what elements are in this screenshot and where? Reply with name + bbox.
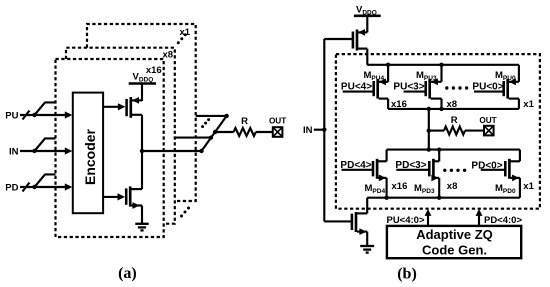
ellipsis dots between instance boxes top-right (a) <box>177 41 180 44</box>
output node dot (a) <box>140 149 144 153</box>
ellipsis dots on merge (a) <box>201 125 204 128</box>
pmos enable transistor (b) <box>356 30 359 51</box>
svg-text:PU<3>: PU<3> <box>393 81 424 92</box>
pmos M_PU3 <box>440 65 442 82</box>
svg-text:OUT: OUT <box>269 117 286 126</box>
svg-text:Encoder: Encoder <box>82 128 98 185</box>
ground (b) <box>360 245 374 247</box>
IN vertical wire (b) <box>323 39 325 221</box>
PU source rail wire <box>367 64 519 66</box>
svg-text:x16: x16 <box>146 65 162 76</box>
resistor R (a) <box>215 131 234 133</box>
pmos pull-up transistor (a) <box>103 106 119 108</box>
wire x1 instance output <box>196 115 227 117</box>
nmos M_PD4 <box>386 150 388 162</box>
OUT pad terminal (b) <box>484 126 494 136</box>
svg-text:PU: PU <box>5 110 18 121</box>
svg-text:x1: x1 <box>523 99 534 110</box>
svg-text:OUT: OUT <box>479 116 496 125</box>
PD<4:0> bus arrow <box>478 213 480 226</box>
svg-text:PD<0>: PD<0> <box>471 161 502 172</box>
adaptive ZQ code generator block <box>387 226 521 258</box>
nmos M_PD3 <box>438 150 440 162</box>
ellipsis dots PU row <box>445 86 448 89</box>
dashed box (b) <box>336 54 540 209</box>
pmos M_PU4 <box>387 65 389 82</box>
svg-text:PD<4:0>: PD<4:0> <box>484 215 522 226</box>
PD drain rail wire <box>387 149 520 151</box>
PD source rail wire <box>367 197 520 199</box>
merge diagonal wire (a) <box>202 116 227 151</box>
svg-text:Adaptive ZQ: Adaptive ZQ <box>416 227 493 242</box>
PU<4:0> bus arrow <box>427 213 429 226</box>
instance dashed box x16 (a) <box>56 59 164 237</box>
svg-text:PD<3>: PD<3> <box>395 160 426 171</box>
pmos M_PU0 <box>518 65 520 82</box>
wire x8 instance output <box>175 137 211 139</box>
OUT pad terminal (a) <box>273 127 283 137</box>
svg-text:(b): (b) <box>397 266 417 283</box>
svg-text:x8: x8 <box>447 181 458 192</box>
svg-text:x1: x1 <box>523 181 534 192</box>
svg-text:IN: IN <box>303 125 313 136</box>
resistor R (b) <box>429 130 444 132</box>
instance dashed box x1 (a) <box>87 24 196 201</box>
svg-text:PU<4:0>: PU<4:0> <box>386 215 424 226</box>
nmos enable transistor (b) <box>366 198 368 214</box>
wire x16 instance output <box>142 150 202 152</box>
svg-text:(a): (a) <box>118 265 137 282</box>
nmos pull-down transistor (a) <box>103 196 119 198</box>
ellipsis dots PD row <box>443 169 446 172</box>
center tap wire to R <box>428 109 430 150</box>
instance dashed box x8 (a) <box>66 48 175 224</box>
svg-text:PD<4>: PD<4> <box>340 160 371 171</box>
ground (a) <box>135 223 148 225</box>
svg-text:IN: IN <box>9 146 19 157</box>
svg-text:x8: x8 <box>163 50 174 61</box>
svg-text:PD: PD <box>5 182 18 193</box>
svg-text:PU<0>: PU<0> <box>472 81 503 92</box>
PU drain rail wire <box>388 108 519 110</box>
svg-text:PU<4>: PU<4> <box>341 81 372 92</box>
nmos M_PD0 <box>519 150 521 162</box>
encoder block U1 <box>73 93 103 214</box>
svg-text:x16: x16 <box>392 181 408 192</box>
svg-text:R: R <box>241 116 248 127</box>
ellipsis dots between instance boxes bottom-right (a) <box>180 215 183 218</box>
svg-text:R: R <box>451 115 458 126</box>
svg-text:Code Gen.: Code Gen. <box>422 243 487 258</box>
